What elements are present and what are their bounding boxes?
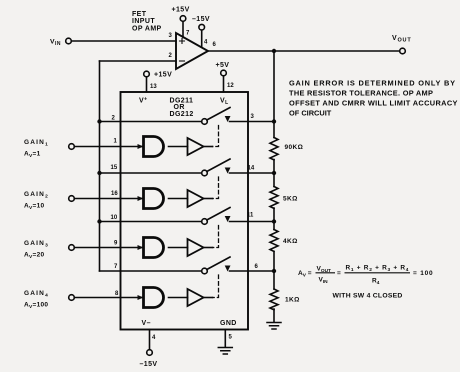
svg-text:3: 3: [251, 114, 255, 120]
svg-text:VL: VL: [220, 98, 229, 107]
wire IN4 pin 8: [75, 297, 144, 299]
svg-text:V+: V+: [139, 97, 147, 105]
svg-text:9: 9: [114, 241, 118, 247]
node S1-divider: [272, 119, 276, 123]
terminal GAIN4: [69, 295, 75, 301]
wire IN1 pin 1: [75, 146, 144, 148]
node S3-divider: [272, 219, 276, 223]
wire bus to pin 7 row: [100, 270, 121, 272]
wire D4 row pin 7: [121, 270, 202, 272]
svg-text:VIN: VIN: [50, 39, 61, 47]
power -15V pin 4: [149, 330, 151, 350]
svg-text:GND: GND: [220, 320, 237, 327]
svg-text:1: 1: [114, 139, 118, 145]
svg-text:= 100: = 100: [413, 270, 433, 277]
wire VIN to op-amp pin 3: [72, 40, 177, 42]
svg-text:=: =: [337, 270, 341, 277]
note text: [289, 79, 458, 118]
svg-text:AV =: AV =: [298, 270, 312, 279]
svg-text:–15V: –15V: [192, 16, 210, 23]
wire control SW2 (dashed): [213, 177, 219, 199]
buffer 2: [188, 190, 204, 207]
svg-text:13: 13: [150, 84, 157, 90]
wire IN2 pin 16: [75, 198, 144, 200]
node bus-D2: [97, 171, 101, 175]
power +15V op-amp pin 7: [180, 16, 186, 22]
svg-text:14: 14: [248, 166, 255, 172]
wire resistor divider: [273, 51, 275, 322]
wire op-amp pin 2 to bus: [100, 60, 177, 62]
svg-text:4: 4: [204, 40, 208, 46]
svg-text:12: 12: [227, 83, 234, 89]
svg-text:WITH SW 4 CLOSED: WITH SW 4 CLOSED: [333, 293, 403, 300]
wire control SW3 (dashed): [213, 226, 219, 248]
svg-text:16: 16: [111, 191, 118, 197]
wire D3 row pin 10: [100, 221, 202, 223]
terminal VIN: [66, 38, 72, 44]
wire control SW4 (dashed): [213, 275, 219, 298]
svg-text:AV=10: AV=10: [24, 203, 45, 212]
terminal GAIN2: [69, 196, 75, 202]
svg-text:+15V: +15V: [154, 72, 172, 79]
power +5V pin 12: [221, 70, 227, 76]
wire bus (inverting input to D pins): [99, 61, 101, 271]
svg-text:4KΩ: 4KΩ: [283, 238, 298, 245]
ground pin 5: [224, 330, 226, 348]
svg-text:FET: FET: [132, 11, 147, 18]
resistor R2 5K: [270, 187, 278, 209]
IC box DG211/DG212: [121, 92, 249, 330]
formula AV = VOUT/VIN = (R1+R2+R3+R4)/R4 = 100: [298, 265, 433, 300]
svg-text:DG212: DG212: [170, 111, 194, 118]
svg-text:2: 2: [169, 53, 173, 59]
svg-text:90KΩ: 90KΩ: [285, 144, 304, 151]
resistor R3 4K: [270, 230, 278, 252]
buffer 3: [188, 239, 204, 256]
svg-text:GAIN4: GAIN4: [24, 290, 49, 299]
svg-text:OFFSET AND CMRR WILL LIMIT ACC: OFFSET AND CMRR WILL LIMIT ACCURACY: [289, 99, 458, 108]
svg-text:6: 6: [255, 264, 259, 270]
svg-text:GAIN1: GAIN1: [24, 139, 49, 148]
node bus-D1: [97, 119, 101, 123]
svg-text:GAIN ERROR IS DETERMINED ONLY: GAIN ERROR IS DETERMINED ONLY BY: [289, 79, 456, 88]
gate driver 1: [144, 137, 164, 157]
wire control SW1 (dashed): [213, 126, 219, 147]
svg-text:GAIN3: GAIN3: [24, 240, 49, 249]
svg-text:7: 7: [114, 264, 118, 270]
svg-text:5KΩ: 5KΩ: [283, 196, 298, 203]
resistor R4 1K: [270, 289, 278, 310]
op-amp U1: [176, 33, 208, 69]
svg-text:8: 8: [115, 291, 119, 297]
switch SW2: [202, 159, 274, 176]
wire op-amp output to VOUT: [208, 50, 400, 52]
gate driver 3: [144, 238, 164, 258]
svg-text:+15V: +15V: [172, 7, 190, 14]
svg-text:AV=1: AV=1: [24, 151, 41, 160]
svg-text:3: 3: [169, 33, 173, 39]
svg-text:4: 4: [152, 335, 156, 341]
svg-text:15: 15: [111, 165, 118, 171]
node S4-divider: [272, 269, 276, 273]
gate driver 4: [144, 288, 164, 308]
switch SW1: [202, 108, 274, 125]
resistor R1 90K: [270, 138, 278, 160]
svg-text:+5V: +5V: [216, 62, 230, 69]
svg-text:5: 5: [229, 335, 233, 341]
svg-text:OP AMP: OP AMP: [132, 25, 162, 32]
terminal VOUT: [400, 48, 406, 54]
svg-text:2: 2: [112, 116, 116, 122]
svg-text:R4: R4: [372, 278, 380, 287]
svg-text:R1 + R2 + R3 + R4: R1 + R2 + R3 + R4: [346, 265, 410, 274]
switch SW4: [202, 257, 274, 274]
svg-text:VOUT: VOUT: [392, 35, 412, 43]
wire D1 row pin 2: [100, 121, 202, 123]
svg-text:1KΩ: 1KΩ: [285, 297, 300, 304]
buffer 4: [188, 289, 204, 306]
svg-text:6: 6: [213, 42, 217, 48]
node output-divider: [272, 49, 276, 53]
svg-text:VIN: VIN: [319, 277, 329, 286]
svg-text:11: 11: [247, 213, 254, 219]
buffer 1: [188, 138, 204, 155]
svg-text:10: 10: [111, 215, 118, 221]
svg-text:GAIN2: GAIN2: [24, 191, 49, 200]
ground divider: [267, 323, 281, 330]
svg-text:INPUT: INPUT: [132, 18, 155, 25]
svg-text:7: 7: [186, 31, 190, 37]
power +15V pin 13: [144, 71, 150, 77]
svg-text:AV=20: AV=20: [24, 252, 45, 261]
svg-text:THE RESISTOR TOLERANCE. OP AMP: THE RESISTOR TOLERANCE. OP AMP: [289, 89, 433, 98]
terminal GAIN3: [69, 245, 75, 251]
svg-text:–15V: –15V: [140, 361, 158, 368]
node bus-D3: [97, 219, 101, 223]
wire D2 row pin 15: [100, 172, 202, 174]
power -15V op-amp pin 4: [199, 24, 205, 30]
switch SW3: [202, 208, 274, 225]
gate driver 2: [144, 189, 164, 209]
svg-text:V–: V–: [142, 320, 151, 327]
wire IN3 pin 9: [75, 247, 144, 249]
svg-text:AV=100: AV=100: [24, 302, 48, 311]
svg-text:OF CIRCUIT: OF CIRCUIT: [289, 109, 332, 118]
terminal GAIN1: [69, 144, 75, 150]
node S2-divider: [272, 171, 276, 175]
